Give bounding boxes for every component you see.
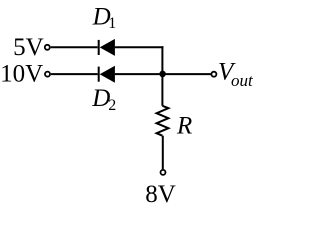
wire 5V terminal to diode D1 (51, 46, 98, 48)
wire D1 to corner (115, 46, 163, 48)
wire 10V terminal to diode D2 (51, 73, 98, 75)
svg-text:8V: 8V (145, 181, 176, 208)
terminal Vout (211, 72, 216, 77)
label D1 (92, 3, 117, 32)
terminal 8V (161, 170, 166, 175)
wire junction to resistor R (161, 74, 163, 106)
junction node (159, 71, 166, 78)
diode D1 (98, 39, 115, 56)
svg-text:R: R (176, 113, 192, 140)
svg-text:5V: 5V (13, 34, 44, 61)
label Vout (218, 59, 254, 91)
svg-text:out: out (231, 71, 254, 90)
wire corner down to junction (161, 46, 163, 74)
svg-text:2: 2 (108, 97, 116, 114)
label D2 (91, 85, 116, 114)
svg-text:10V: 10V (0, 61, 43, 88)
wire resistor to terminal 8V (162, 136, 164, 170)
wire D2 to terminal Vout (115, 73, 211, 75)
svg-text:1: 1 (108, 15, 116, 32)
diode D2 (98, 66, 115, 83)
terminal 10V (45, 72, 50, 77)
terminal 5V (45, 45, 50, 50)
resistor R (157, 106, 169, 136)
